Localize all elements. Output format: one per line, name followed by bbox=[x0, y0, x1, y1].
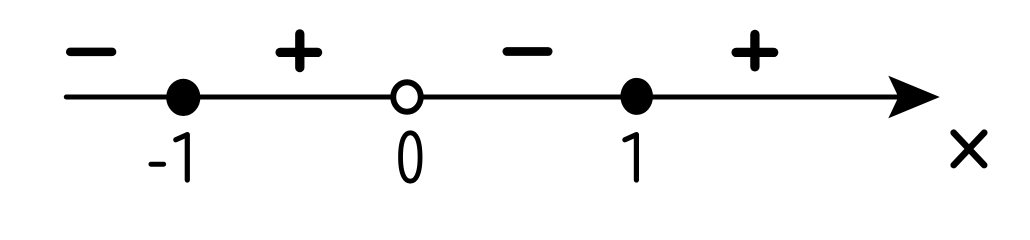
closed point at -1 bbox=[166, 79, 200, 116]
sign label plus (between -1 and 0) bbox=[280, 34, 318, 68]
tick label 0 bbox=[401, 133, 421, 181]
number line axis bbox=[66, 95, 905, 100]
sign label minus (between 0 and 1) bbox=[507, 47, 548, 56]
closed point at 1 bbox=[620, 78, 653, 115]
sign label plus (right of 1) bbox=[736, 34, 774, 66]
tick label 1 bbox=[625, 135, 637, 180]
axis variable label x bbox=[954, 133, 985, 165]
sign label minus (left of -1) bbox=[70, 48, 112, 57]
tick label -1 bbox=[151, 135, 187, 180]
arrowhead bbox=[888, 76, 940, 119]
open point at 0 bbox=[393, 82, 421, 112]
